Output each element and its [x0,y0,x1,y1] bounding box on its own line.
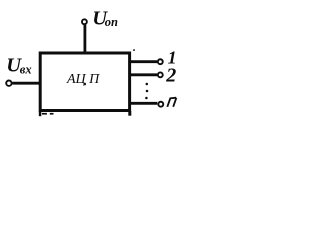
terminal Uвх [6,81,11,86]
wire Uоп to block top [84,25,87,54]
АЦП block U1 [40,53,129,111]
svg-text:АЦ П: АЦ П [66,72,100,87]
terminal 2 [158,72,163,77]
terminal 1 [158,59,163,64]
ellipsis dots between outputs 2 and n [146,83,149,86]
label n [167,98,176,107]
wire output 1 [130,60,158,63]
svg-text:вх: вх [20,63,32,77]
wire output 2 [130,73,158,76]
svg-text:оп: оп [105,15,118,29]
svg-text:2: 2 [165,65,176,87]
wire output n [130,102,158,105]
wire Uвх to block left [13,82,42,85]
terminal n [158,102,163,107]
Ц descender tail of АЦП label [84,83,86,85]
terminal Uоп [82,19,87,24]
